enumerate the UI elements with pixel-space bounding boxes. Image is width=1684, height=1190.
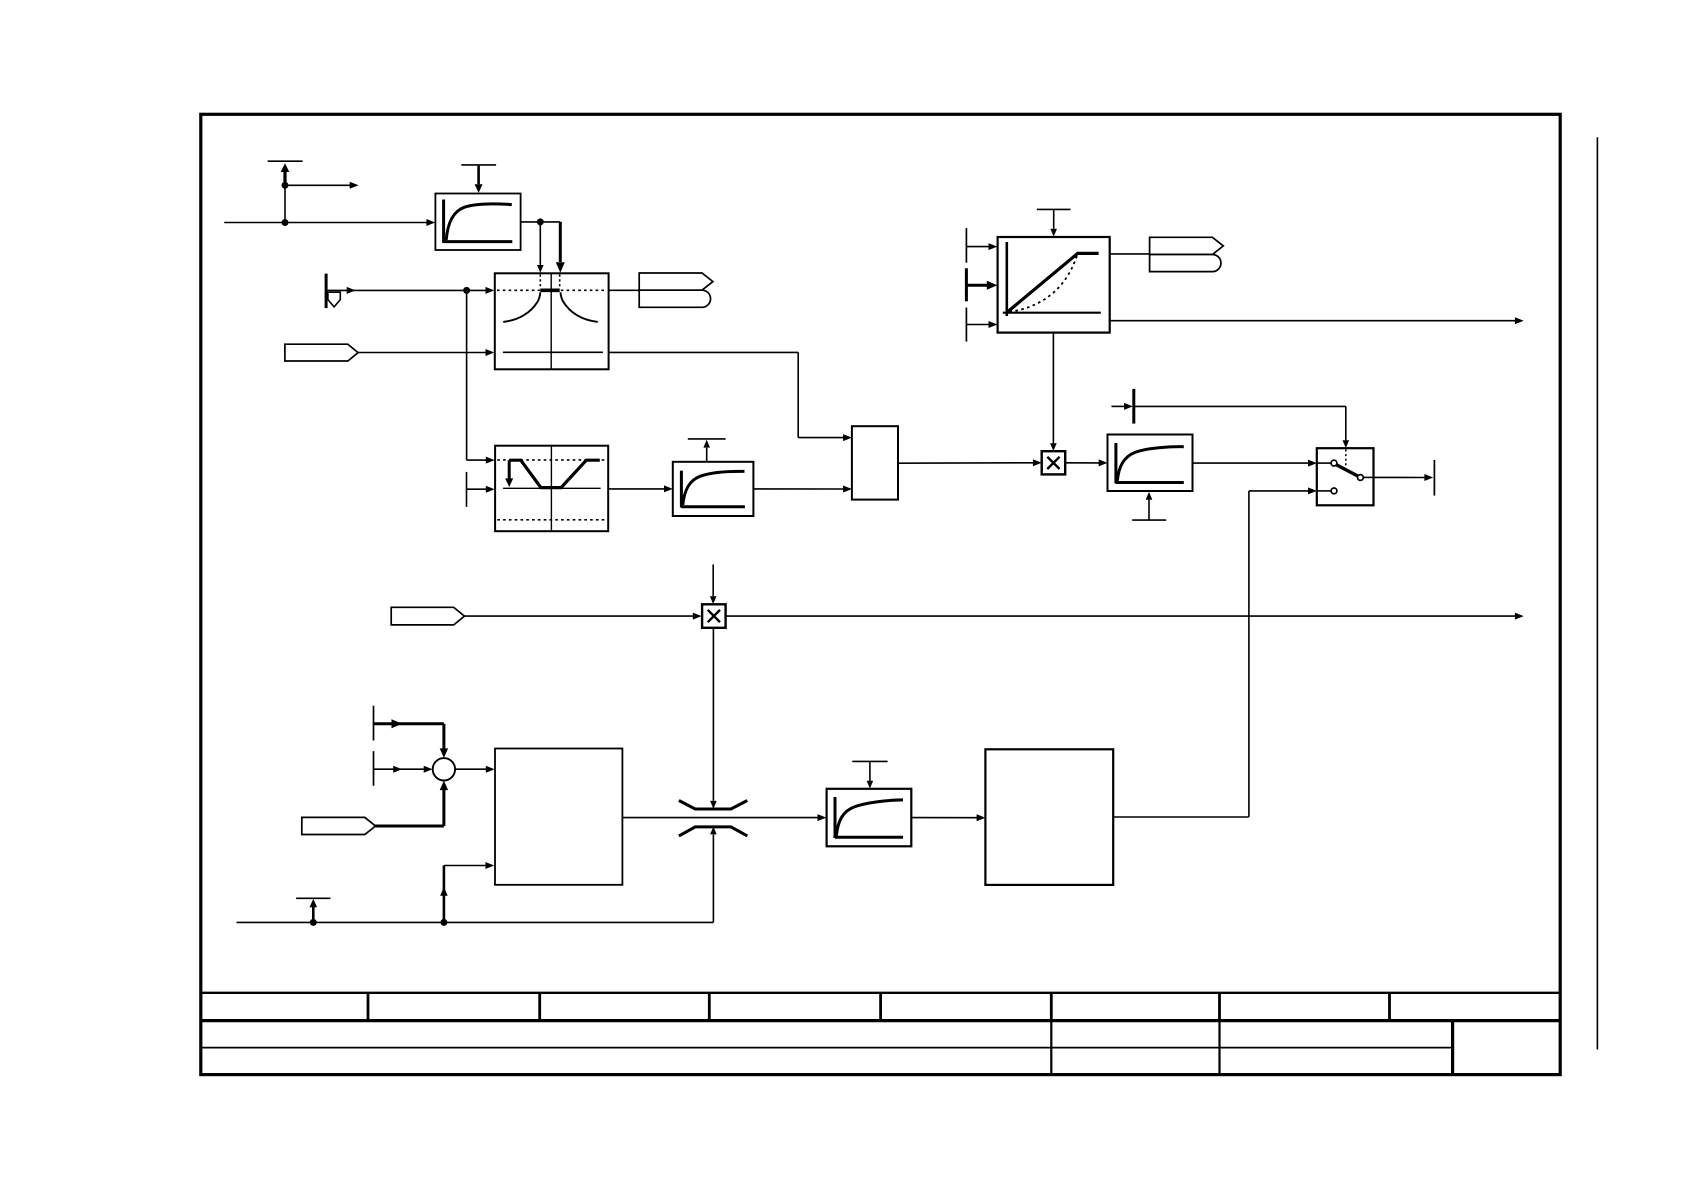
title block thick rule (201, 1019, 1560, 1022)
wire control to switch (1135, 406, 1349, 448)
wire R1 input 1 (966, 243, 997, 250)
filter block F2 (673, 462, 754, 516)
title block top rule (201, 992, 1560, 994)
node F junction dot (440, 919, 447, 926)
node B junction dot (282, 219, 289, 226)
title block header cell separators (368, 993, 1390, 1021)
input tag X3 (302, 817, 376, 834)
parameter arrow into F3 (1146, 492, 1153, 520)
node D junction dot (463, 287, 470, 294)
parameter T-bar of F2 (688, 438, 726, 440)
wire G2 output to SW1 (1113, 491, 1249, 817)
wire main input to filter F1 (224, 219, 435, 226)
wire F2 output to S1 (753, 486, 852, 493)
wire lower feedback into G1 (440, 862, 494, 922)
parameter arrow into F4 (867, 762, 874, 788)
filter block F4 (827, 789, 912, 847)
wire stub into M2 top (710, 564, 717, 604)
wire R1 bottom output to M1 (1050, 333, 1057, 451)
binector flag input K1 (326, 274, 340, 309)
monitor arrow out of F2 (703, 440, 710, 462)
title block sheet-number box (1451, 1021, 1454, 1075)
title block thin rule (201, 1047, 1453, 1049)
wire X2 to M2 (464, 613, 701, 620)
node A junction dot (282, 182, 289, 189)
wire X1 to B1 (358, 349, 494, 356)
wire arrow up to P1 (281, 163, 290, 185)
filter block F3 (1108, 435, 1193, 492)
parameter arrow into R1 (1050, 210, 1057, 236)
output tag pair Y1 (639, 273, 713, 307)
wire M2 down to limiter (710, 628, 717, 809)
node E junction dot (310, 919, 317, 926)
source rail of R1 inputs (965, 228, 967, 342)
wire R1 to Y2 (1110, 253, 1150, 255)
bottom rail wire (237, 921, 714, 923)
drawing border frame (201, 114, 1560, 1074)
source rail of Q1 inputs (373, 706, 375, 786)
wire R1 input 3 (966, 321, 997, 328)
parameter T-bar of F1 (461, 164, 496, 166)
input tag X2 (391, 607, 464, 625)
parameter T-bar of F3 (1132, 519, 1166, 521)
wire node A down (284, 185, 286, 222)
wire rail up to limiter (710, 827, 717, 923)
wire F4 output to G2 (911, 814, 985, 821)
wire Q1 input 1 (374, 719, 449, 758)
characteristic block B1 (495, 273, 609, 369)
wire G1 output through L1 (622, 814, 826, 821)
wire branch arrow right (285, 182, 359, 189)
source bar into B2 input 2 (467, 472, 495, 507)
wire Q1 input 2 (374, 766, 433, 773)
output tag pair Y2 (1150, 237, 1224, 271)
combiner box S1 (852, 426, 898, 499)
multiplier M2 (702, 604, 726, 628)
input tag X1 (285, 344, 358, 361)
wire X3 to Q1 (376, 781, 449, 826)
wire F3 output to switch (1193, 460, 1317, 467)
function block G1 (495, 749, 622, 885)
control source bar K2 (1112, 389, 1134, 424)
parameter arrow into F1 (475, 166, 483, 193)
changeover switch SW1 (1317, 448, 1374, 505)
title block lower cell separators (1051, 1021, 1219, 1075)
parameter T-bar P2 (296, 897, 330, 899)
wire drop thin into B1 (537, 222, 544, 273)
wire SW1 lower input (1249, 487, 1317, 494)
right margin rule (1596, 137, 1598, 1049)
wire B1 to Y1 (609, 289, 640, 291)
output terminal bar Y3 (1433, 460, 1435, 496)
limiter L1 (679, 801, 747, 836)
parameter T-bar of F4 (852, 760, 887, 762)
wire F1 output (521, 221, 561, 223)
wire B2 output (608, 485, 673, 492)
wire M1 output to F3 (1065, 459, 1107, 466)
wire R1 input 2 (966, 281, 997, 290)
wire R1 long output (1110, 317, 1524, 324)
wire Q1 output to G1 (455, 766, 495, 773)
wire drop thick into B1 (556, 222, 565, 273)
wire M2 long output (726, 613, 1524, 620)
wire node D down to B2 (467, 290, 495, 463)
wire B1 lower output elbow (609, 352, 852, 441)
function block G2 (985, 749, 1113, 885)
wire K1 to B1 (326, 287, 494, 294)
filter block F1 (435, 194, 520, 251)
dead-band block B2 (495, 446, 608, 532)
multiplier M1 (1042, 451, 1066, 474)
node C junction dot (537, 218, 544, 225)
parameter T-bar of R1 (1037, 208, 1071, 210)
wire S1 output to M1 (898, 459, 1042, 466)
parameter T-bar P1 (268, 160, 303, 162)
summing circle Q1 (433, 758, 455, 780)
monitor arrow up to P2 (310, 899, 318, 923)
ramp-function block R1 (998, 237, 1110, 333)
wire SW1 output (1374, 474, 1434, 481)
